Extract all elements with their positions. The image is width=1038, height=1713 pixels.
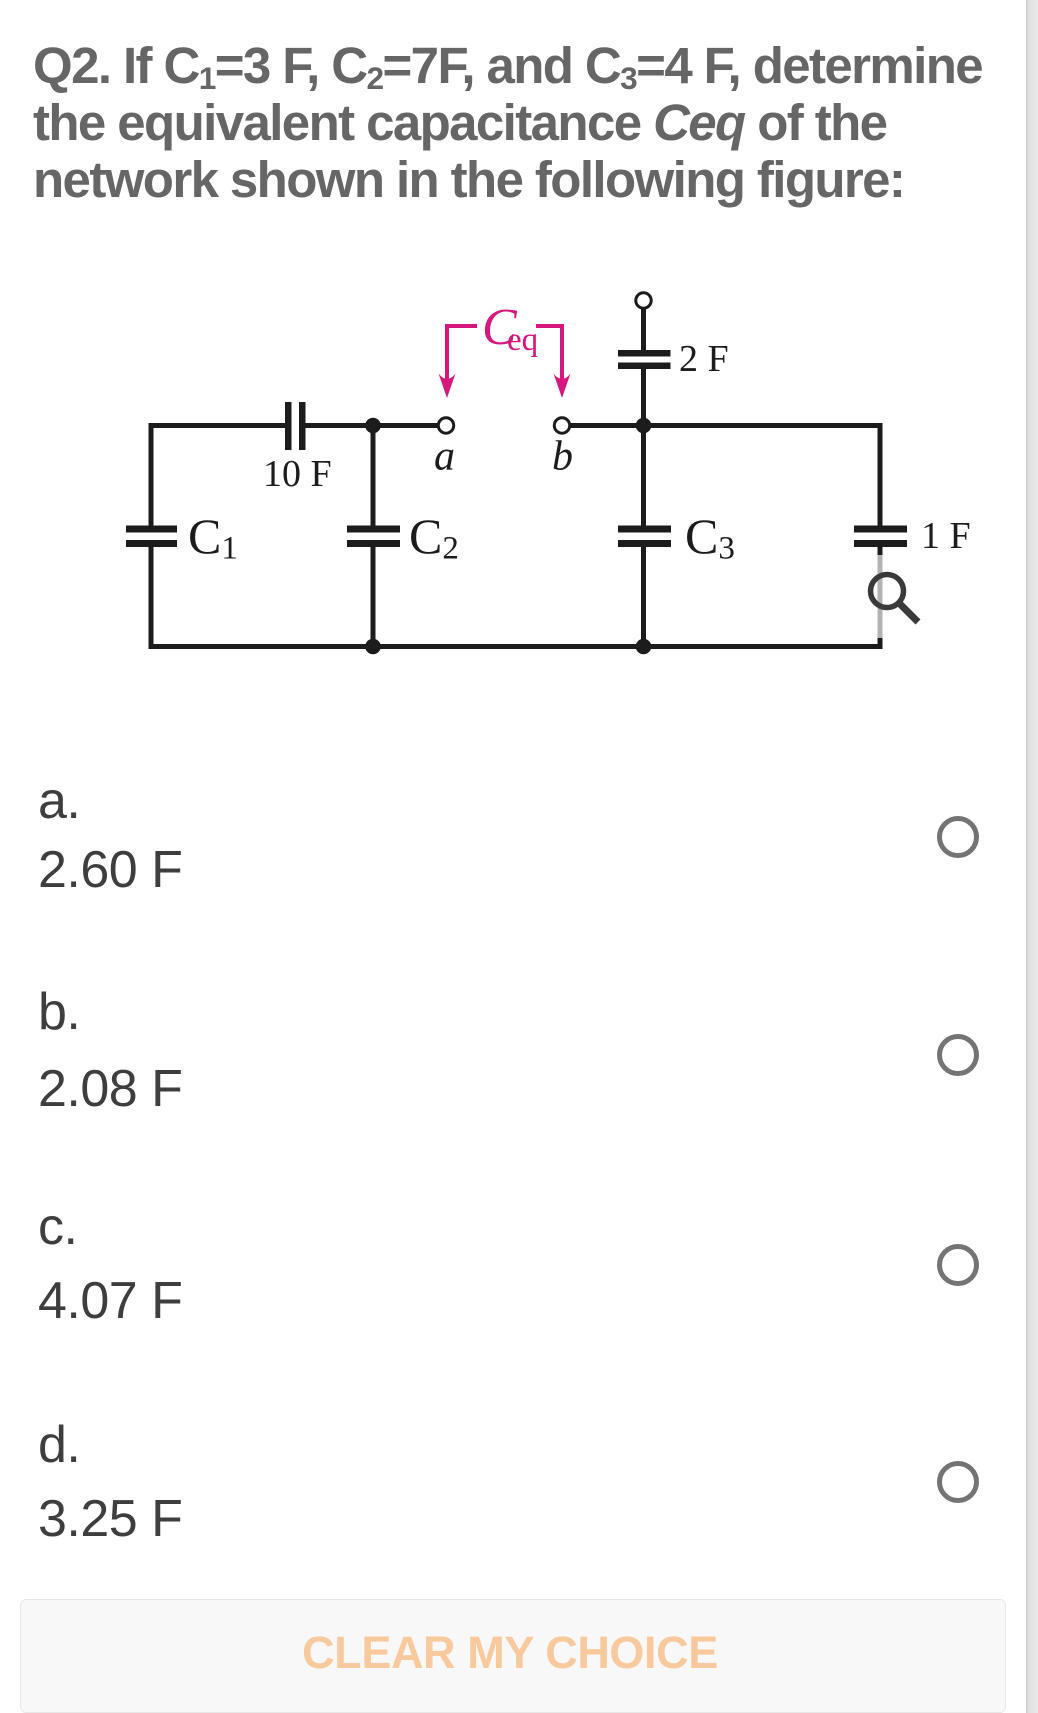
node junction dot bottom (C3) xyxy=(636,639,652,655)
capacitor C2 plates xyxy=(347,526,400,533)
node junction dot bottom (C2) xyxy=(365,639,381,655)
magnifier icon xyxy=(871,575,919,623)
radio b xyxy=(937,1034,979,1076)
node junction dot (2F/C3 branch top) xyxy=(636,418,652,434)
question title xyxy=(33,37,1033,208)
terminal b open circle xyxy=(554,418,569,433)
capacitor C3 plates xyxy=(618,526,671,533)
wire: left rail xyxy=(149,423,154,526)
option c value xyxy=(38,1275,182,1327)
circuit figure xyxy=(0,270,1038,690)
wire: C2 branch vertical xyxy=(371,426,376,526)
node junction dot top (C2 branch) xyxy=(365,418,381,434)
option a value xyxy=(38,844,182,896)
wire: 2F bottom to node xyxy=(641,369,646,426)
wire: 2F top stub xyxy=(641,308,646,351)
wire: C3 branch vertical xyxy=(641,426,646,526)
capacitor 1F plates xyxy=(854,526,907,533)
wire: right rail faded gray section xyxy=(878,555,883,638)
wire: 10F to terminal a xyxy=(306,423,438,428)
option d letter xyxy=(38,1419,80,1471)
svg-text:eq: eq xyxy=(507,322,538,358)
wire: top-left horizontal (left rail to 10F) xyxy=(149,423,286,428)
svg-text:a: a xyxy=(434,434,455,480)
terminal: 2F branch top open circle xyxy=(636,293,651,308)
Ceq label magenta xyxy=(447,326,562,382)
option d value xyxy=(38,1493,182,1545)
right scrollbar strip xyxy=(1026,0,1038,1713)
radio c xyxy=(937,1244,979,1286)
svg-text:b: b xyxy=(552,434,573,480)
svg-text:10 F: 10 F xyxy=(263,453,332,495)
svg-text:C2: C2 xyxy=(409,508,459,567)
option a letter xyxy=(38,775,80,827)
svg-text:1 F: 1 F xyxy=(921,515,971,557)
radio d xyxy=(937,1461,979,1503)
clear my choice button xyxy=(20,1599,1006,1713)
option b letter xyxy=(38,986,80,1038)
capacitor 10 F plates xyxy=(285,402,292,450)
capacitor C1 plates xyxy=(126,526,177,533)
svg-text:C3: C3 xyxy=(685,508,735,567)
svg-text:C1: C1 xyxy=(188,508,238,567)
radio a xyxy=(937,816,979,858)
wire: right rail below 1F short black stub xyxy=(878,547,883,555)
wire: bottom-right corner xyxy=(149,638,883,649)
svg-text:2 F: 2 F xyxy=(679,338,729,380)
wire: terminal b to right rail xyxy=(570,423,882,428)
option b value xyxy=(38,1063,182,1115)
wire: right rail top xyxy=(878,423,883,526)
option c letter xyxy=(38,1201,77,1253)
capacitor 2F plates xyxy=(618,350,671,357)
terminal a open circle xyxy=(438,418,453,433)
